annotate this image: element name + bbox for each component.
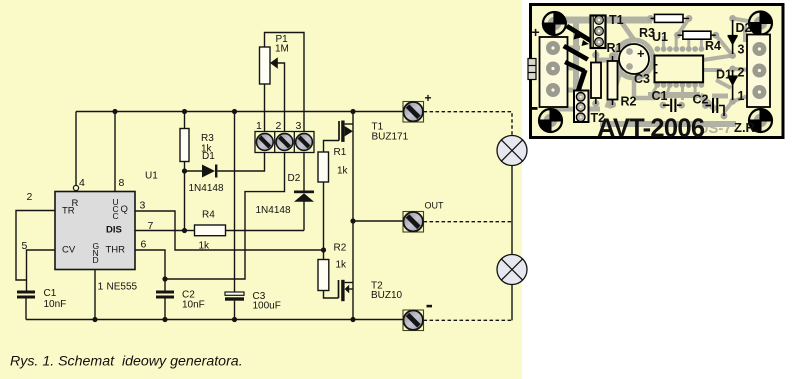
- svg-text:C3: C3: [634, 72, 650, 86]
- svg-text:C1: C1: [652, 89, 668, 103]
- left connector: [540, 37, 568, 107]
- node: node X (R1/R2/Q): [321, 247, 326, 252]
- svg-text:Q: Q: [121, 204, 128, 215]
- C3 (PCB electrolytic): [619, 44, 649, 74]
- svg-text:D1: D1: [716, 68, 732, 82]
- C2 (PCB): [706, 105, 712, 107]
- U1 IC (PCB): [655, 56, 704, 83]
- D1 (PCB): [732, 70, 734, 100]
- pin 4 circle: [73, 185, 78, 190]
- wire: pin3 Q out to node X: [135, 211, 324, 250]
- wire: pin7 DIS stub: [135, 230, 185, 232]
- mounting hole top-left: [543, 12, 566, 35]
- wire: output column T1 drain to T2 drain: [352, 112, 354, 320]
- wire: lamp column solid segments: [511, 166, 513, 255]
- lamp 2: [497, 255, 527, 285]
- svg-text:1N4148: 1N4148: [256, 205, 291, 216]
- wire: P1 bottom lead to jumper pin1 (crosses rail): [264, 84, 266, 132]
- svg-text:+: +: [532, 24, 540, 40]
- capacitor C3 (electrolytic): [225, 292, 244, 295]
- wire dashed: minus terminal to lamp column: [424, 319, 513, 321]
- wire: T1 gate lead from R1 top: [324, 141, 340, 153]
- wire: D1 cathode to jumper pin1: [217, 153, 264, 172]
- wire: R4 left lead: [185, 230, 195, 232]
- svg-text:1N4148: 1N4148: [189, 183, 224, 194]
- svg-text:BUZ171: BUZ171: [372, 132, 409, 143]
- wire: C2 leads: [164, 279, 166, 291]
- svg-text:1k: 1k: [199, 241, 211, 252]
- svg-text:U1: U1: [145, 171, 158, 182]
- AVT logo lightning (black): [563, 24, 598, 93]
- svg-text:D2: D2: [736, 21, 752, 35]
- wire: R1 bottom lead to node X: [323, 182, 325, 250]
- PCB gray trace network: [553, 18, 759, 124]
- svg-text:3: 3: [738, 43, 745, 57]
- R1 (PCB): [595, 50, 597, 63]
- svg-text:C1: C1: [44, 288, 57, 299]
- svg-text:TR: TR: [62, 206, 75, 217]
- svg-text:DIS: DIS: [106, 225, 122, 236]
- node: T2 source rail junction: [350, 317, 355, 322]
- PCB board outline: [531, 5, 784, 138]
- wire: pin4 drop from rail: [75, 112, 77, 186]
- node: C3 rail junction: [232, 109, 237, 114]
- svg-text:AVT-2006: AVT-2006: [597, 115, 705, 143]
- screw terminal minus: [403, 310, 424, 331]
- mounting hole top-right: [749, 12, 772, 35]
- svg-text:1k: 1k: [336, 260, 348, 271]
- wire: bottom GND rail: [26, 319, 403, 321]
- svg-text:1: 1: [98, 281, 104, 293]
- lamp 1: [497, 136, 527, 166]
- schematic yellow background panel: [0, 0, 522, 379]
- resistor R1: [318, 152, 329, 182]
- wire: pin6 THR down to C2 node: [135, 250, 165, 279]
- capacitor C2: [156, 291, 174, 294]
- node: OUT junction: [350, 218, 355, 223]
- node: R3/D1 junction: [182, 168, 187, 173]
- R3 (PCB): [651, 17, 690, 19]
- svg-text:R4: R4: [705, 39, 721, 53]
- wire: pin1 GND lead: [94, 270, 96, 320]
- svg-text:D1: D1: [202, 151, 215, 162]
- svg-text:+: +: [425, 91, 432, 105]
- left wire-entry tabs: [528, 59, 536, 80]
- R2 (PCB): [612, 56, 614, 62]
- svg-text:THR: THR: [106, 245, 126, 256]
- svg-text:1: 1: [738, 89, 745, 103]
- svg-text:6: 6: [141, 239, 147, 251]
- node: C2 top junction: [162, 276, 167, 281]
- svg-text:C2: C2: [693, 93, 709, 107]
- svg-text:7: 7: [148, 220, 154, 232]
- mounting hole bottom-right: [749, 109, 772, 132]
- wire dashed: + terminal to lamp column: [424, 112, 513, 136]
- transistor T1 BUZ171: [338, 121, 340, 141]
- svg-text:OUT: OUT: [425, 201, 445, 211]
- diode D1 1N4148: [202, 165, 215, 178]
- C1 (PCB): [663, 104, 670, 106]
- svg-text:Rys. 1. Schemat ideowy genera: Rys. 1. Schemat ideowy generatora.: [10, 354, 243, 370]
- R4 (PCB): [678, 34, 716, 36]
- label minus: [427, 305, 433, 308]
- op-amp-IC U1 NE555 body: [55, 192, 135, 270]
- wire: pin5 CV to left and down to C1: [27, 250, 56, 291]
- svg-text:R1: R1: [334, 147, 347, 158]
- node: R3 rail junction: [182, 109, 187, 114]
- svg-text:D2: D2: [288, 173, 301, 184]
- svg-text:C: C: [113, 211, 119, 221]
- wire: P1 wiper to jumper pin2: [278, 63, 285, 132]
- svg-text:2: 2: [738, 66, 745, 80]
- wire dashed: OUT terminal to lamp column: [424, 221, 513, 223]
- wire: C3 top lead from VCC rail: [234, 112, 236, 293]
- wire: pin8 drop from rail: [114, 112, 116, 192]
- svg-text:3: 3: [140, 200, 146, 212]
- svg-text:+: +: [637, 46, 645, 61]
- transistor T2 BUZ10: [338, 280, 340, 298]
- wire: C3 bottom lead: [234, 301, 236, 320]
- svg-text:NE555: NE555: [107, 282, 138, 293]
- screw terminal OUT: [403, 212, 424, 233]
- svg-text:1: 1: [256, 120, 262, 132]
- svg-text:R4: R4: [202, 210, 215, 221]
- node: pin8 rail junction: [112, 109, 117, 114]
- svg-text:2: 2: [27, 191, 33, 203]
- wire: D2 cathode up to jumper pin3: [303, 153, 305, 191]
- D2 (PCB): [732, 20, 734, 54]
- wire: T2 gate lead from R2 bottom: [324, 291, 339, 299]
- wire: R3 top lead: [184, 112, 186, 129]
- right connector: [747, 35, 770, 108]
- svg-text:2: 2: [276, 120, 282, 132]
- capacitor C1: [17, 291, 35, 294]
- jumper terminal block 1-2-3: [255, 132, 314, 153]
- wire: C1 bottom lead to GND rail: [25, 299, 27, 320]
- wire: R2 top lead: [323, 250, 325, 260]
- diode D2 1N4148: [294, 191, 314, 194]
- potentiometer P1 1M: [260, 47, 271, 84]
- wire: THR node to jumper pin2 path: [165, 153, 285, 280]
- svg-text:R3: R3: [639, 26, 655, 40]
- resistor R3: [180, 129, 189, 162]
- svg-text:1M: 1M: [275, 44, 289, 55]
- node: T1 rail junction: [350, 109, 355, 114]
- resistor R4: [195, 225, 226, 236]
- wire: D1 anode lead: [185, 170, 203, 172]
- wire: R4 right lead to D2 anode: [226, 230, 305, 232]
- svg-text:CV: CV: [62, 245, 76, 256]
- screw terminal +: [403, 102, 424, 123]
- resistor R2: [318, 260, 329, 291]
- node: C3 bottom rail junction: [232, 317, 237, 322]
- svg-text:100uF: 100uF: [253, 301, 281, 312]
- wire: D2 anode down lead: [303, 202, 305, 231]
- wire: top VCC rail: [76, 111, 403, 113]
- svg-text:Z.R.: Z.R.: [734, 120, 759, 135]
- svg-text:R2: R2: [621, 95, 637, 109]
- wire: R3 bottom lead to D1 node: [184, 162, 186, 172]
- node: R4 left / pin7 junction: [182, 228, 187, 233]
- wire: pin2 TR to left and down: [16, 211, 55, 281]
- PCB gray solder pads: [592, 15, 736, 119]
- svg-text:0S-7: 0S-7: [700, 120, 732, 137]
- svg-text:10nF: 10nF: [44, 299, 67, 310]
- svg-text:BUZ10: BUZ10: [371, 290, 403, 301]
- svg-text:R3: R3: [201, 133, 214, 144]
- svg-text:D: D: [93, 255, 99, 265]
- svg-text:3: 3: [296, 120, 302, 132]
- svg-text:10nF: 10nF: [182, 300, 205, 311]
- svg-text:4: 4: [79, 177, 85, 189]
- wire: D1 node down to R4/pin7 node: [184, 171, 186, 231]
- mounting hole bottom-left: [539, 109, 562, 132]
- svg-text:R2: R2: [334, 243, 347, 254]
- node: GND rail junction: [92, 317, 97, 322]
- wire: OUT branch: [353, 220, 403, 222]
- svg-text:T1: T1: [609, 13, 624, 27]
- node: C2 bottom rail junction: [162, 317, 167, 322]
- svg-text:5: 5: [22, 240, 28, 252]
- PCB minus label: [531, 107, 538, 110]
- wire: P1 top lead and top link to pin3 column: [265, 33, 305, 132]
- svg-text:8: 8: [119, 177, 125, 189]
- T2 pin header (PCB): [574, 91, 589, 123]
- svg-text:1k: 1k: [337, 166, 349, 177]
- T1 pin header (PCB): [591, 16, 606, 49]
